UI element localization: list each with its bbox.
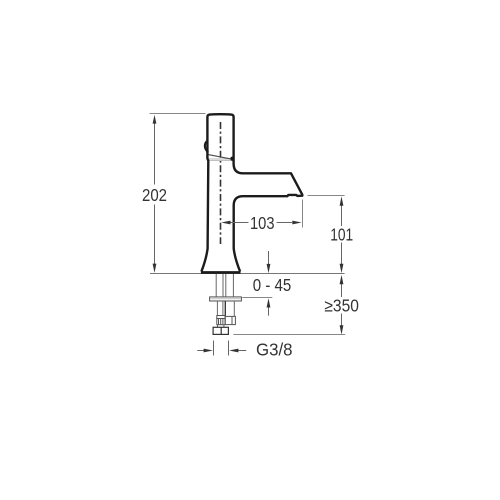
svg-text:G3/8: G3/8: [256, 339, 293, 359]
G3/8 tick right: [228, 341, 230, 356]
joint line: [208, 159, 231, 161]
lever diagonal line: [208, 155, 231, 159]
dimension 0-45 lower arrow: [267, 298, 271, 307]
shank tubes: [216, 274, 233, 297]
dimension 202 arrows: [153, 115, 157, 273]
dimension 0-45 lower line: [268, 308, 270, 316]
rod below flange: [217, 301, 223, 316]
bottom hex nut: [213, 327, 228, 334]
lever pin blob: [230, 157, 234, 161]
dimension 103 arrows: [221, 221, 301, 225]
tube below flange: [225, 301, 234, 316]
bottom extension line: [233, 334, 345, 336]
svg-text:101: 101: [330, 225, 353, 245]
rod collar: [217, 316, 225, 319]
extension line top (202): [150, 113, 206, 115]
svg-text:≥350: ≥350: [324, 296, 359, 316]
dimension 101 line: [341, 206, 343, 265]
svg-text:103: 103: [250, 213, 275, 233]
G3/8 right arrow: [229, 349, 246, 353]
rod stub: [218, 325, 224, 328]
svg-text:0 - 45: 0 - 45: [253, 275, 291, 295]
deck line: [150, 273, 345, 275]
dimension >=350 line: [341, 284, 343, 326]
G3/8 left arrow: [197, 349, 213, 353]
centerline: [220, 122, 222, 244]
dimension 0-45 upper line: [268, 251, 270, 264]
dimension 101 arrows: [340, 196, 344, 273]
rod thread section: [217, 319, 225, 325]
flange extension line: [242, 297, 272, 299]
base bottom edge: [201, 271, 241, 274]
G3/8 tick left: [213, 341, 215, 356]
svg-text:202: 202: [142, 185, 167, 205]
dimension >=350 arrows: [340, 275, 344, 335]
spout tip vertical extension: [302, 200, 304, 228]
flange: [210, 297, 242, 301]
dimension 202 line: [154, 121, 156, 266]
dimension 0-45 upper arrow: [267, 264, 271, 273]
spout tip horizontal extension: [308, 195, 345, 197]
faucet body outline: [201, 114, 302, 271]
hose hex fitting: [225, 316, 235, 324]
handle notch: [205, 141, 208, 153]
dimension 103 line: [231, 222, 293, 224]
